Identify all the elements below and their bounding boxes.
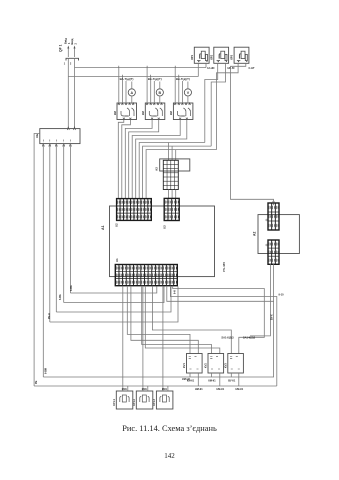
svg-text:КМ: КМ [113, 111, 117, 115]
relay KV3 [223, 354, 243, 374]
svg-text:В: В [158, 91, 161, 95]
svg-text:КМ1: КМ1 [142, 388, 148, 391]
terminal strip X2 [115, 199, 152, 227]
wire PE from XT1 side [34, 134, 40, 387]
terminal numbers inside XT1 [43, 140, 70, 142]
wire KM1 to rails [119, 68, 126, 104]
connector XP3 [230, 47, 249, 63]
wire A2 pin to SA row [250, 264, 270, 336]
svg-text:2: 2 [70, 63, 72, 66]
svg-text:А3: А3 [155, 167, 159, 171]
wire left-bundle turns to X1 [70, 287, 156, 294]
wire bottom rail 2 [34, 385, 277, 387]
svg-text:SА1-К(2)З: SА1-К(2)З [221, 336, 234, 340]
svg-text:КМ: КМ [141, 111, 145, 115]
svg-text:А1: А1 [101, 225, 105, 230]
svg-text:ХУ1.1: ХУ1.1 [112, 398, 116, 406]
wire QF1 poles down to terminal box [67, 58, 69, 128]
svg-text:КМ: КМ [169, 111, 173, 115]
svg-text:А: А [130, 91, 133, 95]
wire turn y302 [64, 287, 164, 303]
svg-text:QF 1: QF 1 [59, 44, 63, 52]
contactor KM2 [141, 103, 165, 120]
svg-text:А2: А2 [252, 232, 256, 236]
wire turn y312 [56, 287, 171, 313]
svg-text:КМ-Н3: КМ-Н3 [182, 378, 190, 381]
wire top rail L1 [75, 67, 207, 69]
svg-text:ХУ1.2: ХУ1.2 [132, 398, 136, 406]
wire XP1 pins to rails [197, 63, 199, 76]
svg-text:КV1: КV1 [182, 363, 186, 368]
svg-text:PS-485: PS-485 [222, 262, 226, 272]
indicator P3 [184, 82, 191, 104]
svg-text:Ввід: Ввід [64, 38, 68, 44]
terminal chevrons on XT1 bottom [42, 144, 71, 147]
wire KV bottoms to rails [190, 373, 239, 386]
terminal strip X3 [163, 198, 180, 229]
svg-text:ВА-Т(д)(Т): ВА-Т(д)(Т) [176, 77, 190, 81]
wire KM3 to rails [175, 68, 182, 104]
svg-text:12-НО: 12-НО [207, 67, 214, 70]
wire A2 top feed arrow [273, 202, 275, 205]
connector XP1 [190, 47, 209, 63]
svg-text:Х3: Х3 [163, 225, 167, 229]
junction ticks on rail L1 [119, 66, 175, 68]
svg-text:Ввід: Ввід [70, 38, 74, 44]
svg-text:V: V [187, 91, 190, 95]
svg-text:КV3: КV3 [223, 363, 227, 368]
svg-text:6-ВА: 6-ВА [70, 285, 73, 291]
svg-text:С-НТ: С-НТ [249, 67, 255, 70]
connector XY1.3 [152, 391, 173, 409]
svg-text:ХУ1.3: ХУ1.3 [152, 398, 156, 406]
connector strip A2 bottom [266, 240, 279, 264]
wire top rail L2 [68, 76, 198, 78]
svg-text:6-ВМ: 6-ВМ [45, 368, 48, 374]
svg-text:НМ-К1: НМ-К1 [195, 388, 203, 391]
module A3 [155, 159, 190, 171]
contactor KM3 [169, 103, 193, 120]
svg-text:1: 1 [64, 63, 66, 66]
wire XY1.3 pins [167, 386, 169, 391]
wire taps to A3 [169, 143, 176, 161]
contactor KM1 [113, 103, 137, 120]
svg-text:ВА-Т(д)(Т): ВА-Т(д)(Т) [120, 77, 134, 81]
terminal strip of A3 [163, 160, 178, 189]
svg-text:КМ1: КМ1 [162, 388, 168, 391]
caption [0, 424, 339, 433]
connector strip A2 top [266, 203, 279, 230]
svg-text:Х1: Х1 [115, 258, 119, 262]
svg-text:НМ-К1: НМ-К1 [216, 388, 224, 391]
wire bundle from XT1 down [43, 144, 70, 377]
svg-text:2: 2 [74, 43, 78, 45]
connector XP2 [209, 47, 228, 63]
svg-text:6-ВА: 6-ВА [59, 294, 62, 300]
wire XP2 drops [205, 63, 235, 146]
wire cascade to X2 [118, 120, 216, 199]
wire A3 strip to X3 [169, 190, 176, 199]
svg-text:9-10: 9-10 [279, 294, 285, 297]
indicator P2 [156, 82, 163, 104]
wire XY1.2 pins [147, 386, 149, 391]
page number [0, 452, 339, 460]
svg-text:ХР3: ХР3 [230, 54, 234, 60]
relay KV2 [204, 354, 224, 374]
wire X1 columns down [123, 286, 277, 391]
wire turn y322 [50, 287, 178, 323]
connector XY1.1 [112, 391, 133, 409]
junction ticks on rail L2 [122, 75, 178, 77]
module A1 (controller) [101, 206, 215, 277]
svg-text:ВА-Т(д)(Т): ВА-Т(д)(Т) [148, 77, 162, 81]
connector XY1.2 [132, 391, 153, 409]
svg-text:ВУ-К: ВУ-К [271, 314, 274, 320]
svg-text:КМ-К1: КМ-К1 [208, 380, 216, 383]
terminal box XT1 [35, 127, 80, 144]
svg-text:ХР2: ХР2 [209, 54, 213, 60]
wire bottom rail 1 [43, 264, 273, 377]
svg-text:Х2: Х2 [115, 223, 119, 227]
svg-text:КV2: КV2 [204, 363, 208, 368]
wire XP3 drops [217, 63, 274, 203]
circuit breaker QF1 [59, 38, 79, 66]
svg-text:6-Н: 6-Н [175, 290, 177, 294]
svg-text:РЕ: РЕ [35, 380, 38, 384]
relay KV1 [182, 354, 202, 374]
svg-text:РЕ-А: РЕ-А [48, 313, 51, 319]
indicator P1 [128, 82, 135, 104]
svg-text:НВ-Ю: НВ-Ю [227, 67, 234, 70]
svg-text:НМ-К1: НМ-К1 [235, 388, 243, 391]
wire KM2 to rails [147, 68, 154, 104]
svg-text:ХР1: ХР1 [190, 54, 194, 60]
terminal strip X1 [115, 258, 177, 286]
wire XY1.1 pins [127, 386, 129, 391]
svg-text:ВУ-К1: ВУ-К1 [228, 380, 236, 383]
module A2 [252, 215, 299, 254]
svg-text:КМ1: КМ1 [122, 388, 128, 391]
